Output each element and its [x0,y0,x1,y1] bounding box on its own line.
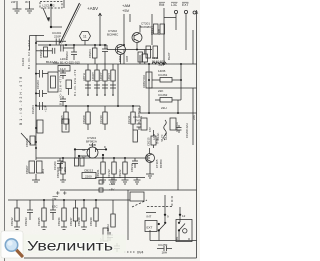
svg-text:CB205: CB205 [25,138,29,147]
svg-text:11: 11 [83,35,87,39]
svg-text:CC211: CC211 [127,115,131,124]
svg-text:3N: 3N [25,0,28,4]
svg-text:20K: 20K [63,167,67,172]
svg-text:MOB: MOB [89,143,96,147]
svg-text:CB208: CB208 [82,115,86,124]
svg-text:100H: 100H [106,224,110,231]
svg-text:CB242: CB242 [10,217,14,226]
svg-text:B1-IO-92H-4T8: B1-IO-92H-4T8 [19,75,23,125]
svg-text:B1-IO-92H-4T9: B1-IO-92H-4T9 [73,69,77,96]
svg-text:14KLY: 14KLY [107,73,111,81]
svg-text:CL201: CL201 [21,57,25,66]
svg-text:CB211: CB211 [137,107,141,116]
svg-text:220P: 220P [54,35,61,39]
svg-text:CB207: CB207 [25,165,29,174]
svg-text:EXT: EXT [147,226,153,230]
svg-text:CC259: CC259 [158,243,168,247]
svg-text:12: 12 [182,214,186,218]
svg-text:CB204: CB204 [88,49,92,58]
svg-text:HA-YC: HA-YC [161,134,164,142]
svg-text:CC206: CC206 [53,161,57,170]
svg-text:+12P: +12P [44,105,48,112]
svg-text:CC204: CC204 [31,105,35,114]
svg-text:CB247: CB247 [69,217,73,226]
svg-text:BC850: BC850 [159,159,163,168]
svg-text:22K: 22K [192,115,196,120]
svg-text:INT: INT [147,215,152,219]
svg-text:CC205: CC205 [60,115,64,124]
svg-text:CB2H: CB2H [118,55,122,62]
svg-text:B1-IO-92H-4T7: B1-IO-92H-4T7 [59,75,63,105]
svg-text:CC203: CC203 [36,80,40,89]
svg-text:CB221: CB221 [96,169,100,178]
svg-text:14-0: 14-0 [60,67,66,71]
svg-text:XOBLYOX: XOBLYOX [142,75,146,88]
svg-text:14KOY: 14KOY [91,72,95,81]
svg-text:+A5V: +A5V [87,6,98,11]
svg-text:HBYH: HBYH [82,73,86,81]
svg-text:B1: B1 [175,236,179,240]
svg-text:L3C: L3C [52,205,58,209]
svg-text:B142: B142 [53,61,60,65]
svg-text:G1: G1 [82,148,86,152]
svg-text:CB249: CB249 [89,217,93,226]
svg-text:+AM: +AM [109,182,116,186]
svg-text:3K3: 3K3 [41,169,45,174]
svg-text:CB216: CB216 [130,163,134,172]
svg-text:CB222: CB222 [118,169,122,178]
svg-text:CB245: CB245 [37,217,41,226]
svg-text:POB: POB [157,29,161,35]
svg-text:EXT: EXT [182,3,189,7]
svg-text:CC262: CC262 [158,93,168,97]
svg-text:CB246: CB246 [57,217,61,226]
svg-text:Увеличить: Увеличить [27,239,113,254]
svg-text:18H: 18H [162,251,168,255]
svg-text:+5V: +5V [109,188,114,192]
svg-text:B1-IO-525-915: B1-IO-525-915 [60,61,80,65]
svg-text:-915: -915 [158,63,164,67]
svg-text:24P: 24P [11,0,16,4]
svg-text:B1-IO-92H-4T7: B1-IO-92H-4T7 [27,39,31,69]
svg-text:CB213: CB213 [84,169,94,173]
svg-text:CB243: CB243 [24,217,28,226]
svg-text:BL2/Y: BL2/Y [167,52,171,60]
svg-text:G2: G2 [82,155,86,159]
svg-text:14KPY: 14KPY [99,72,103,81]
svg-text:7HP: 7HP [156,138,160,144]
svg-text:CC212: CC212 [107,169,111,178]
svg-text:CC210: CC210 [99,115,103,124]
svg-text:CC208 22H: CC208 22H [185,123,189,138]
svg-text:22H: 22H [161,106,167,110]
svg-text:CB203: CB203 [65,51,69,60]
svg-text:CB220: CB220 [56,169,60,178]
svg-text:7H0: 7H0 [135,119,141,123]
svg-text:K2D-91A: K2D-91A [176,122,179,132]
svg-text:CB202: CB202 [39,49,43,58]
svg-text:CB248: CB248 [77,217,81,226]
svg-text:CB215: CB215 [147,137,151,146]
svg-text:2200: 2200 [85,175,92,179]
svg-text:UA-93: UA-93 [165,133,168,140]
svg-text:D9: D9 [53,197,57,201]
svg-text:BC848C: BC848C [107,33,119,37]
svg-text:0V4: 0V4 [137,251,143,255]
svg-text:CC261: CC261 [158,73,168,77]
svg-text:L2C1-D2: L2C1-D2 [43,4,55,8]
svg-text:CB214: CB214 [150,26,154,35]
svg-text:4HP: 4HP [149,127,152,132]
svg-text:RM: RM [159,3,164,7]
svg-text:D: D [104,145,106,149]
svg-text:L3C: L3C [171,3,178,7]
svg-text:UOB: UOB [125,56,129,62]
svg-text:+5V: +5V [122,8,130,13]
